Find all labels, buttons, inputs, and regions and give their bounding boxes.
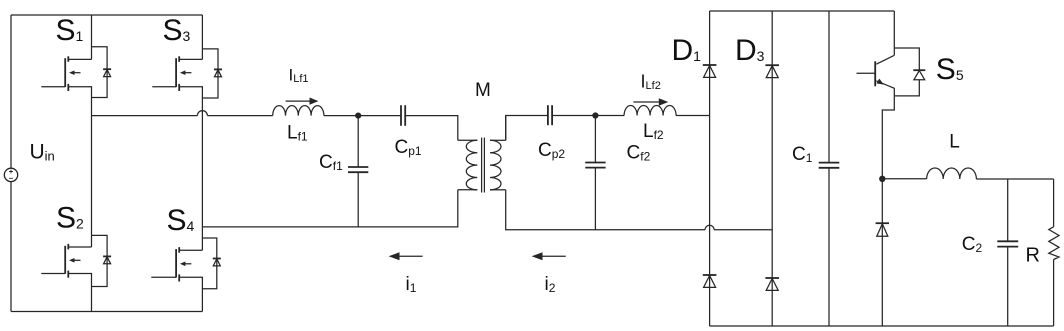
wire Lf1 to node (324, 115, 358, 117)
inductor Lf2 (624, 106, 676, 116)
wire hop at S3 leg (197, 111, 207, 116)
node junction dot (355, 113, 361, 119)
capacitor Cp2 (548, 105, 552, 125)
capacitor C1 (819, 11, 840, 326)
wire left rail upper (10, 15, 12, 168)
current arrow i1 (389, 252, 423, 260)
wire left rail lower (10, 182, 12, 312)
inductor L (927, 168, 977, 179)
source Uin circle (4, 168, 17, 181)
transistor S4 (151, 227, 202, 312)
current arrow i2 (532, 252, 566, 260)
diode D1 top (703, 65, 717, 77)
wire bottom bus right (710, 325, 1054, 327)
wire Cp2 to node (552, 115, 595, 117)
diode D3 bottom (765, 278, 779, 290)
wire bottom bus left (11, 311, 202, 313)
wire node to Lf2 (595, 115, 624, 117)
wire Lf2 to rectifier (676, 115, 710, 117)
diode D3 top (765, 65, 779, 77)
diode body S5 (894, 48, 925, 96)
wire Cp1 to transformer (405, 116, 458, 141)
wire bridge output A with hop over S3 leg (92, 115, 198, 117)
capacitor C2 (997, 179, 1018, 326)
current arrow ILf2 (633, 98, 668, 106)
wire transformer to Cp2 (506, 116, 548, 141)
diode body S4 (202, 238, 220, 289)
svg-text:R: R (1026, 245, 1040, 267)
wire top bus left (11, 14, 202, 16)
svg-text:M: M (475, 80, 491, 101)
transistor S3 (152, 15, 202, 227)
capacitor Cp1 (401, 105, 405, 126)
diode freewheel (876, 179, 889, 326)
svg-text:L: L (949, 131, 960, 152)
resistor R (1049, 179, 1059, 326)
capacitor Cf1 branch (348, 116, 368, 227)
capacitor Cf2 branch (585, 116, 605, 230)
wire hop to D3 leg (714, 229, 772, 231)
wire hop at D1 leg (705, 225, 714, 229)
wire L to load (976, 178, 1053, 180)
wire top bus right (710, 10, 895, 12)
wire node to L (882, 178, 926, 180)
wire transformer bottom to rectifier (506, 116, 705, 230)
wire D1 leg (709, 11, 711, 326)
node junction dot secondary (592, 112, 598, 118)
wire D3 leg (771, 11, 773, 326)
wire node to Cp1 (358, 115, 401, 117)
node junction dot output (879, 176, 885, 182)
transformer M (458, 138, 506, 193)
diode D1 bottom (703, 275, 717, 287)
wire hop to Lf1 (207, 115, 272, 117)
transistor S1 (41, 15, 91, 116)
inductor Lf1 (273, 106, 324, 116)
transistor S2 (41, 116, 91, 312)
wire bridge output B (bottom rail) (202, 190, 457, 227)
diode body S2 (92, 235, 112, 286)
transistor S5 (857, 11, 895, 179)
diode body S1 (92, 47, 112, 98)
diode body S3 (202, 49, 222, 98)
current arrow ILf1 (286, 98, 319, 105)
